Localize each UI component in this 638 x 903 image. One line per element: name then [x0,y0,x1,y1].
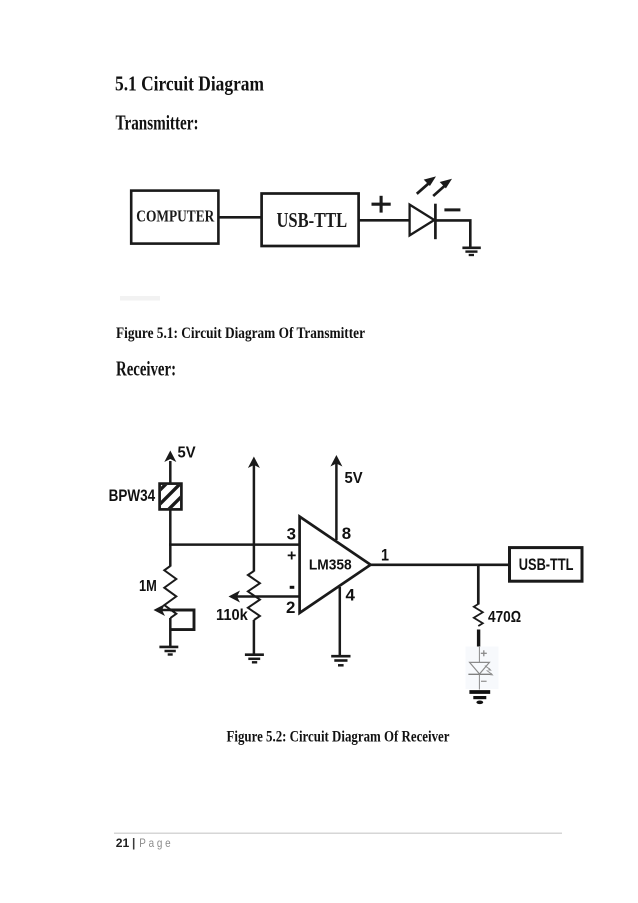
svg-text:5V: 5V [345,470,364,487]
wiper arrow 110k / wire to op-amp pin 2 [229,591,300,603]
footer rule [114,832,562,834]
pin 8 5V supply arrow [330,455,363,540]
svg-text:Transmitter:: Transmitter: [116,111,199,135]
ground LED (bold) [469,692,490,704]
svg-text:1M: 1M [139,578,157,595]
resistor 470 ohm [474,604,521,626]
LED D1 transmitter [410,204,436,240]
svg-text:Figure 5.1: Circuit Diagram Of: Figure 5.1: Circuit Diagram Of Transmitt… [116,325,365,342]
svg-text:COMPUTER: COMPUTER [136,207,215,226]
svg-text:LM358: LM358 [309,557,352,573]
photodiode BPW34 [109,466,205,521]
resistor 110k [216,571,260,624]
svg-text:470Ω: 470Ω [488,609,521,626]
minus input label [290,586,295,589]
ground 1M [159,647,178,655]
usb-ttl box transmitter [262,194,359,247]
5V supply arrow 110k branch [248,457,260,572]
wire junction to 470 resistor [477,565,480,605]
LED D2 indicator (gray) [466,647,499,690]
svg-text:3: 3 [287,526,296,544]
svg-text:1: 1 [381,547,389,565]
footer page number [116,836,171,850]
wire 110k to ground [253,620,256,654]
resistor 1M [139,566,176,618]
5V supply arrow BPW34 branch [164,444,196,483]
wire usb-ttl to LED anode [359,219,410,222]
svg-text:4: 4 [346,587,356,605]
wire computer to usb-ttl [218,216,261,219]
wire BPW34 to 1M resistor (node A) [169,509,172,566]
svg-text:BPW34: BPW34 [109,486,156,505]
minus polarity label [444,208,460,211]
light emission arrows [417,176,452,196]
svg-text:2: 2 [286,599,295,617]
op-amp U1 LM358 [300,517,371,613]
wire 1M to ground [169,618,172,646]
wire node A to op-amp pin 3 [169,543,300,546]
usb-ttl box receiver [510,548,583,582]
faint smudge artifact [120,296,160,301]
pin 4 wire to ground [339,587,342,656]
svg-text:USB-TTL: USB-TTL [519,556,574,574]
ground 110k [245,655,264,663]
svg-text:110k: 110k [216,607,248,624]
svg-text:P a g e: P a g e [139,836,171,850]
output wire pin 1 to usb-ttl [369,563,510,566]
wire 470 to LED (thick) [477,630,480,648]
wire LED cathode to ground [435,220,470,246]
svg-text:+: + [287,548,296,565]
svg-text:5V: 5V [178,444,197,461]
ground transmitter [462,248,480,255]
ground op-amp [331,656,350,665]
svg-text:|: | [132,836,135,850]
computer box [131,191,218,244]
svg-text:5.1 Circuit Diagram: 5.1 Circuit Diagram [115,72,264,96]
svg-text:8: 8 [342,525,351,543]
plus polarity label [372,196,391,213]
svg-text:21: 21 [116,836,130,850]
svg-text:USB-TTL: USB-TTL [277,208,348,232]
potentiometer wiper 1M [154,604,195,630]
svg-text:Receiver:: Receiver: [116,357,176,381]
svg-text:Figure 5.2: Circuit Diagram Of: Figure 5.2: Circuit Diagram Of Receiver [227,729,450,746]
